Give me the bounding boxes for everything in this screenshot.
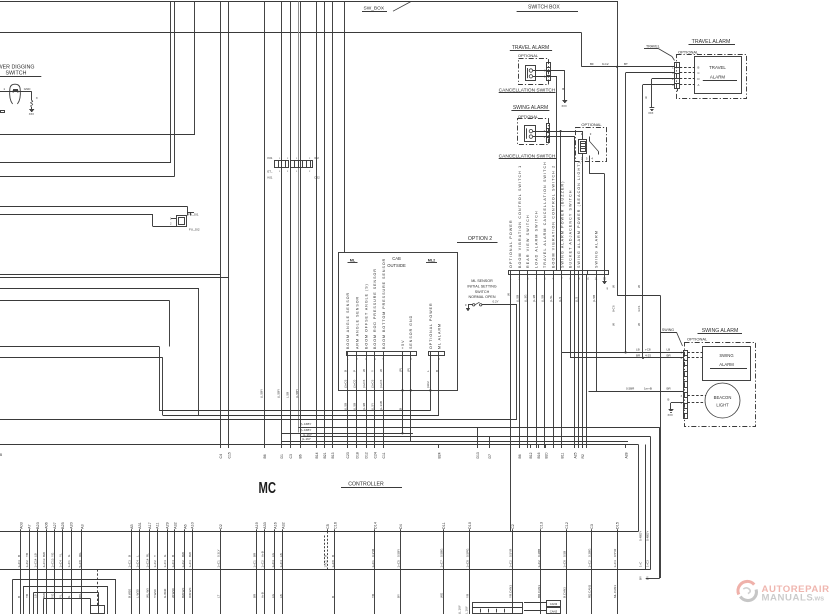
svg-text:B.CAN3: B.CAN3: [563, 587, 567, 598]
svg-text:1+C1: 1+C1: [217, 560, 221, 568]
svg-text:(L.16BY: (L.16BY: [301, 428, 312, 432]
svg-text:LB: LB: [34, 594, 38, 598]
svg-text:D12: D12: [365, 452, 369, 458]
svg-text:C3: C3: [590, 524, 594, 529]
svg-text:LT: LT: [217, 595, 221, 598]
svg-text:(3m2: (3m2: [426, 381, 430, 388]
svg-text:P: P: [353, 370, 357, 372]
svg-text:1+C7: 1+C7: [439, 560, 443, 568]
svg-text:C3: C3: [289, 454, 293, 458]
svg-text:1+C14: 1+C14: [34, 558, 38, 567]
svg-text:REAR VIEW SWITCH: REAR VIEW SWITCH: [526, 214, 530, 268]
svg-text:C11: C11: [382, 452, 386, 458]
svg-text:(L.9B: (L.9B: [362, 403, 366, 410]
svg-text:+5V: +5V: [401, 340, 405, 350]
svg-text:A10: A10: [191, 522, 195, 529]
svg-text:D18: D18: [355, 452, 359, 458]
svg-text:BW: BW: [42, 552, 46, 557]
svg-text:B16: B16: [537, 452, 541, 458]
svg-text:OPTIONAL POWER: OPTIONAL POWER: [429, 302, 433, 349]
svg-text:A31: A31: [138, 522, 142, 529]
svg-text:0.5YR: 0.5YR: [509, 548, 513, 557]
svg-text:LB: LB: [636, 348, 640, 352]
svg-text:(3+C6: (3+C6: [362, 379, 366, 388]
svg-text:OPTIONAL: OPTIONAL: [678, 49, 699, 54]
svg-text:(L.3B: (L.3B: [532, 295, 536, 302]
svg-text:B.W30: B.W30: [127, 589, 131, 598]
svg-text:ET_: ET_: [267, 170, 273, 174]
svg-text:WL.WX: WL.WX: [145, 588, 149, 598]
svg-text:C: C: [698, 71, 700, 75]
svg-text:0.5BR: 0.5BR: [626, 387, 635, 391]
svg-text:RL: RL: [145, 553, 149, 557]
svg-text:C4: C4: [219, 454, 223, 458]
svg-text:A32: A32: [281, 522, 285, 529]
svg-text:C13: C13: [540, 522, 544, 529]
svg-text:SWING: SWING: [662, 328, 674, 332]
svg-text:B25: B25: [61, 522, 65, 529]
svg-text:C2: C2: [511, 524, 515, 529]
svg-text:C12: C12: [565, 522, 569, 529]
svg-text:1+C3: 1+C3: [163, 560, 167, 568]
svg-text:A29: A29: [166, 522, 170, 529]
svg-text:0.5B: 0.5B: [563, 551, 567, 557]
svg-text:0.2BG: 0.2BG: [588, 548, 592, 557]
svg-text:ML2: ML2: [428, 259, 436, 263]
svg-text:CONTROLLER: CONTROLLER: [348, 482, 384, 488]
svg-text:Y: Y: [371, 370, 375, 372]
svg-text:LB: LB: [667, 348, 671, 352]
svg-text:B: B: [171, 555, 175, 557]
svg-text:(3+C6: (3+C6: [379, 379, 383, 388]
svg-text:SW_BOX: SW_BOX: [364, 6, 385, 12]
svg-text:BOOM BOTTOM PRESSURE SENSOR: BOOM BOTTOM PRESSURE SENSOR: [382, 258, 386, 349]
svg-text:D2: D2: [219, 524, 223, 529]
svg-text:FU_J02: FU_J02: [189, 228, 200, 232]
svg-text:BW.WX: BW.WX: [181, 588, 185, 598]
svg-text:B6: B6: [263, 454, 267, 458]
svg-text:XXX: XXX: [668, 413, 673, 417]
svg-text:GND: GND: [24, 87, 32, 91]
svg-text:BOOM ANGLE SENSOR: BOOM ANGLE SENSOR: [346, 292, 350, 349]
svg-text:1+C2: 1+C2: [537, 560, 541, 568]
svg-text:D13: D13: [476, 452, 480, 458]
svg-text:B: B: [331, 596, 335, 598]
svg-text:BUCKET ADJACENCY SWITCH: BUCKET ADJACENCY SWITCH: [569, 189, 573, 268]
svg-text:B: B: [398, 408, 402, 410]
svg-text:BOOM VIBRATION CONTROL SWITCH: BOOM VIBRATION CONTROL SWITCH 1: [518, 165, 522, 268]
svg-text:W: W: [379, 369, 383, 372]
svg-text:SENSOR GND: SENSOR GND: [409, 315, 413, 349]
svg-text:D14: D14: [374, 522, 378, 529]
svg-text:(L.16Y: (L.16Y: [303, 433, 312, 437]
svg-text:SWING ALARM POWER (BEACON LIGH: SWING ALARM POWER (BEACON LIGHT): [577, 161, 581, 268]
svg-text:1+C1: 1+C1: [252, 560, 256, 568]
svg-text:(L.16Y: (L.16Y: [458, 605, 462, 614]
svg-text:1+C3: 1+C3: [127, 560, 131, 568]
svg-text:B: B: [331, 555, 335, 557]
svg-text:LB: LB: [279, 594, 283, 598]
svg-text:YB: YB: [25, 553, 29, 557]
svg-text:INITIAL SETTING: INITIAL SETTING: [467, 284, 496, 288]
svg-text:1+C4: 1+C4: [171, 560, 175, 568]
svg-text:ML.CAN3: ML.CAN3: [613, 585, 617, 598]
svg-text:B24: B24: [438, 452, 442, 458]
svg-text:D1: D1: [280, 454, 284, 458]
svg-text:1+C4: 1+C4: [135, 560, 139, 568]
svg-text:B: B: [17, 555, 21, 557]
svg-text:D4: D4: [399, 524, 403, 529]
svg-text:OUTSIDE: OUTSIDE: [387, 263, 406, 268]
svg-text:XXX: XXX: [29, 112, 34, 116]
svg-text:BT: BT: [624, 62, 628, 66]
svg-text:4-C1: 4-C1: [637, 305, 641, 312]
svg-text:(L.5: (L.5: [575, 296, 579, 302]
svg-text:0.4BDY: 0.4BDY: [646, 531, 650, 541]
svg-text:1+C5: 1+C5: [397, 560, 401, 568]
svg-text:XXX: XXX: [562, 104, 567, 108]
svg-text:B6: B6: [518, 454, 522, 458]
svg-text:ALARM: ALARM: [719, 362, 734, 367]
svg-text:1m+B: 1m+B: [644, 387, 652, 391]
svg-text:BR.CAN3: BR.CAN3: [537, 585, 541, 598]
svg-text:YG: YG: [51, 552, 55, 557]
svg-text:B: B: [323, 555, 327, 557]
svg-text:1+C3: 1+C3: [613, 560, 617, 568]
svg-text:B14: B14: [315, 452, 319, 458]
svg-text:(L.5B: (L.5B: [592, 295, 596, 302]
svg-text:B: B: [645, 96, 647, 100]
svg-text:W: W: [362, 369, 366, 372]
svg-text:A32: A32: [174, 522, 178, 529]
svg-text:K01: K01: [268, 176, 273, 180]
svg-text:OPTION 2: OPTION 2: [468, 236, 492, 242]
svg-text:0.2BB: 0.2BB: [537, 549, 541, 557]
svg-text:0.2Y: 0.2Y: [493, 300, 499, 304]
svg-text:SWITCH: SWITCH: [475, 290, 490, 294]
svg-text:1+C8: 1+C8: [563, 560, 567, 568]
svg-text:(3+C6: (3+C6: [371, 379, 375, 388]
svg-text:+C8: +C8: [645, 348, 651, 352]
svg-text:K01: K01: [268, 156, 273, 160]
svg-text:A11: A11: [156, 523, 160, 529]
svg-text:B: B: [127, 555, 131, 557]
svg-text:OPTIONAL: OPTIONAL: [687, 337, 708, 342]
svg-text:YL: YL: [59, 594, 63, 598]
svg-text:B12: B12: [529, 452, 533, 458]
svg-text:(L.5B: (L.5B: [353, 403, 357, 410]
svg-text:(L.5: (L.5: [558, 296, 562, 302]
svg-text:W: W: [507, 293, 511, 296]
svg-text:(L.5B: (L.5B: [515, 295, 519, 302]
svg-text:1+C2: 1+C2: [260, 560, 264, 568]
svg-text:1+C1: 1+C1: [323, 560, 327, 568]
svg-text:L.16Y: L.16Y: [465, 606, 469, 614]
svg-text:1+C: 1+C: [639, 562, 643, 567]
svg-text:RD.CAN3: RD.CAN3: [588, 584, 592, 598]
svg-text:ALARM: ALARM: [710, 75, 725, 80]
svg-text:TRAVEL: TRAVEL: [709, 65, 726, 70]
svg-text:TRAVEL ALARM CANCELLATION SWIT: TRAVEL ALARM CANCELLATION SWITCH: [543, 161, 547, 268]
svg-text:(L.33B: (L.33B: [379, 401, 383, 410]
svg-text:BW: BW: [188, 552, 192, 557]
svg-text:C24: C24: [373, 452, 377, 458]
svg-text:FU_J01: FU_J01: [188, 213, 199, 217]
svg-text:BY: BY: [397, 594, 401, 598]
svg-text:B20: B20: [544, 452, 548, 458]
svg-text:A06: A06: [45, 522, 49, 529]
svg-text:.ws: .ws: [813, 594, 825, 603]
svg-text:C15: C15: [227, 452, 231, 458]
svg-text:1+C2: 1+C2: [509, 560, 513, 568]
svg-text:1+C4: 1+C4: [279, 560, 283, 568]
svg-text:B: B: [562, 87, 564, 91]
svg-text:TRAVEL: TRAVEL: [646, 45, 660, 49]
svg-text:1+C3: 1+C3: [271, 560, 275, 568]
svg-text:(3+C6: (3+C6: [344, 379, 348, 388]
svg-text:1+C8: 1+C8: [465, 560, 469, 568]
svg-text:YB: YB: [25, 594, 29, 598]
svg-text:W: W: [637, 285, 641, 288]
svg-text:BEACON: BEACON: [714, 395, 732, 400]
svg-text:1+C8: 1+C8: [331, 560, 335, 568]
svg-text:LOAD ALARM SWITCH: LOAD ALARM SWITCH: [535, 210, 539, 268]
svg-text:A20: A20: [70, 522, 74, 529]
svg-text:1+C2: 1+C2: [588, 560, 592, 568]
svg-text:B6: B6: [299, 454, 303, 458]
svg-text:C16: C16: [334, 522, 338, 529]
svg-text:BOOM VIBRATION CONTROL SWITCH: BOOM VIBRATION CONTROL SWITCH 2: [552, 165, 556, 268]
svg-text:B: B: [17, 596, 21, 598]
svg-text:CAB: CAB: [392, 256, 401, 261]
svg-text:D15: D15: [616, 522, 620, 529]
svg-text:A16: A16: [274, 522, 278, 529]
svg-text:X: X: [36, 96, 38, 100]
svg-text:0.3YB: 0.3YB: [371, 549, 375, 557]
svg-text:RG: RG: [78, 593, 82, 598]
svg-text:YB: YB: [371, 594, 375, 598]
svg-text:(L.5L: (L.5L: [549, 295, 553, 302]
svg-text:1+C13: 1+C13: [51, 558, 55, 567]
svg-text:SWING ALARM: SWING ALARM: [595, 230, 599, 268]
svg-text:D10: D10: [468, 522, 472, 529]
svg-text:SWING ALARM POWER (BUZZER): SWING ALARM POWER (BUZZER): [560, 180, 564, 268]
svg-text:(L.5B: (L.5B: [344, 403, 348, 410]
svg-text:A5: A5: [130, 524, 134, 529]
svg-text:LIGHT: LIGHT: [716, 403, 729, 408]
svg-text:0.5PG: 0.5PG: [465, 548, 469, 557]
svg-text:SWITCH: SWITCH: [6, 70, 27, 76]
svg-text:R2: R2: [581, 454, 585, 458]
svg-text:B23: B23: [36, 522, 40, 529]
svg-text:1+C3: 1+C3: [188, 560, 192, 568]
svg-text:B: B: [0, 453, 2, 457]
svg-text:A+B: A+B: [260, 551, 264, 557]
svg-text:ARM ANGLE SENSOR: ARM ANGLE SENSOR: [355, 296, 359, 349]
svg-text:0.5BG: 0.5BG: [439, 548, 443, 557]
svg-text:MANUALS: MANUALS: [762, 593, 814, 604]
svg-text:CAN3: CAN3: [550, 609, 558, 613]
svg-text:BOOM OFFSET ANGLE (S): BOOM OFFSET ANGLE (S): [364, 283, 368, 349]
svg-text:BY: BY: [639, 576, 643, 580]
svg-text:(L.5BY: (L.5BY: [260, 389, 264, 398]
svg-text:ML: ML: [350, 259, 356, 263]
svg-text:BW: BW: [42, 593, 46, 598]
svg-text:A33: A33: [263, 522, 267, 529]
svg-text:B21: B21: [323, 452, 327, 458]
svg-text:0.5BY: 0.5BY: [397, 549, 401, 557]
svg-text:MC: MC: [259, 480, 277, 497]
svg-text:LB: LB: [34, 553, 38, 557]
svg-text:A27: A27: [53, 522, 57, 529]
svg-text:OPTIONAL: OPTIONAL: [581, 122, 602, 127]
svg-text:A6: A6: [184, 524, 188, 529]
svg-text:Y: Y: [153, 555, 157, 557]
svg-text:A+B: A+B: [260, 592, 264, 598]
svg-text:YR.CAN3: YR.CAN3: [509, 585, 513, 598]
svg-text:B13: B13: [331, 452, 335, 458]
svg-text:4-25: 4-25: [645, 353, 651, 357]
svg-text:SWITCH BOX: SWITCH BOX: [528, 4, 560, 10]
svg-text:(P): (P): [398, 368, 402, 372]
svg-text:WG: WG: [439, 592, 443, 598]
svg-text:DW.WX: DW.WX: [188, 588, 192, 599]
svg-text:1+C1: 1+C1: [371, 560, 375, 568]
svg-text:RG: RG: [78, 552, 82, 557]
svg-text:A28: A28: [624, 452, 628, 458]
svg-text:1+C3: 1+C3: [17, 560, 21, 568]
svg-text:1+C14: 1+C14: [145, 558, 149, 567]
svg-text:D7: D7: [488, 454, 492, 458]
svg-text:D: D: [698, 77, 700, 81]
svg-text:G.W30: G.W30: [163, 588, 167, 598]
svg-text:5+C8: 5+C8: [78, 560, 82, 568]
svg-text:SWING ALARM: SWING ALARM: [513, 105, 548, 111]
svg-text:9-C2: 9-C2: [602, 62, 609, 66]
svg-text:YG: YG: [51, 593, 55, 598]
svg-text:ML ALARM: ML ALARM: [437, 323, 441, 349]
svg-text:LG: LG: [271, 552, 275, 557]
svg-text:A25: A25: [573, 452, 577, 458]
svg-text:Y.W30: Y.W30: [153, 589, 157, 598]
svg-text:BW: BW: [181, 552, 185, 557]
svg-text:1+C2: 1+C2: [153, 560, 157, 568]
svg-text:(P): (P): [407, 368, 411, 372]
svg-text:(L.5B: (L.5B: [541, 295, 545, 302]
svg-text:LG: LG: [271, 593, 275, 598]
svg-text:W.W30: W.W30: [171, 588, 175, 598]
svg-text:1+C3: 1+C3: [646, 560, 650, 567]
svg-text:(L.5BY: (L.5BY: [295, 389, 299, 398]
svg-text:(L.3G: (L.3G: [524, 294, 528, 302]
svg-text:A03: A03: [20, 522, 24, 529]
svg-text:B: B: [344, 370, 348, 372]
svg-text:D11: D11: [442, 522, 446, 529]
svg-text:0.3LY: 0.3LY: [217, 549, 221, 557]
svg-text:SWING: SWING: [719, 353, 733, 358]
svg-text:TRAVEL ALARM: TRAVEL ALARM: [512, 45, 549, 51]
svg-text:D32: D32: [315, 176, 321, 180]
svg-text:A7: A7: [28, 524, 32, 529]
svg-text:YL: YL: [59, 553, 63, 557]
svg-text:B11: B11: [560, 453, 564, 459]
svg-text:SWING ALARM: SWING ALARM: [702, 328, 739, 334]
svg-text:ML SENSOR: ML SENSOR: [471, 279, 493, 283]
svg-text:BOOM ROD PRESSURE SENSOR: BOOM ROD PRESSURE SENSOR: [373, 268, 377, 349]
svg-text:A3: A3: [80, 524, 84, 529]
svg-text:OPTIONAL: OPTIONAL: [518, 53, 539, 58]
svg-text:(L.5Y: (L.5Y: [371, 403, 375, 410]
svg-text:A19: A19: [255, 522, 259, 529]
svg-text:W: W: [637, 323, 641, 326]
svg-text:B: B: [668, 398, 670, 402]
svg-text:LB: LB: [279, 553, 283, 557]
svg-text:ID2: ID2: [315, 156, 320, 160]
svg-text:CAN3: CAN3: [550, 602, 558, 606]
svg-text:4+C13: 4+C13: [42, 558, 46, 567]
svg-text:L.W30: L.W30: [135, 589, 139, 598]
svg-text:A17: A17: [148, 522, 152, 529]
svg-text:B: B: [435, 370, 439, 372]
svg-text:BF: BF: [590, 62, 594, 66]
svg-text:(L.16BY: (L.16BY: [301, 422, 312, 426]
svg-text:1+C1: 1+C1: [67, 560, 71, 568]
svg-text:1+C4: 1+C4: [59, 560, 63, 568]
svg-text:(L.16Y: (L.16Y: [302, 437, 311, 441]
svg-text:C23: C23: [346, 452, 350, 458]
svg-text:0.5YR: 0.5YR: [613, 548, 617, 557]
svg-text:0.4BDY: 0.4BDY: [639, 531, 643, 541]
svg-text:W: W: [611, 323, 615, 326]
svg-text:1+C2: 1+C2: [25, 560, 29, 568]
svg-text:NORMAL OPEN: NORMAL OPEN: [468, 295, 495, 299]
svg-text:OPTIONAL POWER: OPTIONAL POWER: [509, 219, 513, 268]
svg-text:C5: C5: [326, 524, 330, 529]
svg-text:L.5B: L.5B: [285, 392, 289, 398]
svg-text:9-C6: 9-C6: [611, 305, 615, 312]
svg-text:1+C2: 1+C2: [181, 560, 185, 568]
svg-text:BY: BY: [646, 576, 650, 580]
svg-text:B: B: [698, 66, 700, 70]
svg-text:A: A: [698, 83, 700, 87]
svg-text:XXX: XXX: [648, 111, 653, 115]
svg-text:(3+C0: (3+C0: [353, 379, 357, 388]
svg-text:W: W: [611, 285, 615, 288]
svg-text:(L.5BY: (L.5BY: [277, 389, 281, 398]
